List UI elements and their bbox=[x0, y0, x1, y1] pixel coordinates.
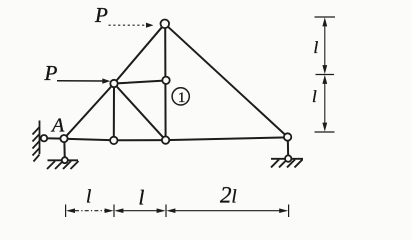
wire: bottom chord A to right support bbox=[64, 137, 288, 140]
svg-text:2l: 2l bbox=[220, 183, 237, 208]
wall (left, hatched) bbox=[33, 121, 40, 162]
node: right ground pin bbox=[285, 155, 291, 161]
wire: link A down to ground pin bbox=[63, 139, 66, 161]
wire: left rafter lower (A to mid node) bbox=[64, 84, 114, 139]
wire: left rafter upper (mid node to apex) bbox=[114, 24, 165, 84]
load arrow P (mid) bbox=[57, 78, 110, 83]
node: mid-right on vertical bbox=[162, 77, 169, 84]
svg-text:A: A bbox=[50, 115, 65, 137]
node: left ground pin bbox=[62, 157, 68, 163]
dimension: bottom segment l (middle) bbox=[114, 208, 165, 213]
node: A bbox=[60, 135, 67, 142]
load arrow P (top, dotted shaft) bbox=[109, 23, 154, 28]
node: mid-left (load P) bbox=[110, 80, 117, 87]
ground under A (line + hatching) bbox=[47, 160, 79, 169]
dimension: right vertical ticks bbox=[315, 17, 336, 132]
svg-text:1: 1 bbox=[178, 90, 186, 106]
svg-text:P: P bbox=[94, 3, 108, 27]
wire: link wall pin to A bbox=[44, 137, 64, 139]
dimension: bottom segment 2l bbox=[166, 208, 288, 213]
node: bottom middle right bbox=[162, 136, 169, 143]
wire: link right node down to ground pin bbox=[287, 137, 289, 159]
svg-text:l: l bbox=[312, 87, 317, 106]
dimension: right segment l (upper) bbox=[322, 17, 327, 74]
node: bottom middle left bbox=[110, 137, 117, 144]
wire: mid horizontal bbox=[114, 81, 166, 84]
label circled 1 (member tag) bbox=[172, 88, 189, 106]
node: wall pin bbox=[41, 135, 47, 141]
wire: left vertical bbox=[113, 84, 115, 141]
dimension: bottom line ticks bbox=[66, 205, 289, 218]
wire: right rafter apex to right support bbox=[165, 24, 288, 137]
svg-text:l: l bbox=[86, 187, 91, 208]
svg-text:l: l bbox=[139, 186, 145, 210]
dimension: bottom segment l (left) bbox=[66, 208, 114, 213]
wire: diagonal mid node to bottom node bbox=[114, 84, 166, 141]
wire: center vertical member 1 bbox=[164, 24, 166, 140]
dimension: right segment l (lower) bbox=[322, 75, 327, 132]
svg-text:P: P bbox=[44, 61, 58, 85]
ground under right support (line + hatching) bbox=[271, 159, 303, 168]
svg-text:l: l bbox=[314, 38, 319, 57]
node: right support bbox=[284, 133, 291, 140]
node: apex bbox=[161, 20, 170, 29]
